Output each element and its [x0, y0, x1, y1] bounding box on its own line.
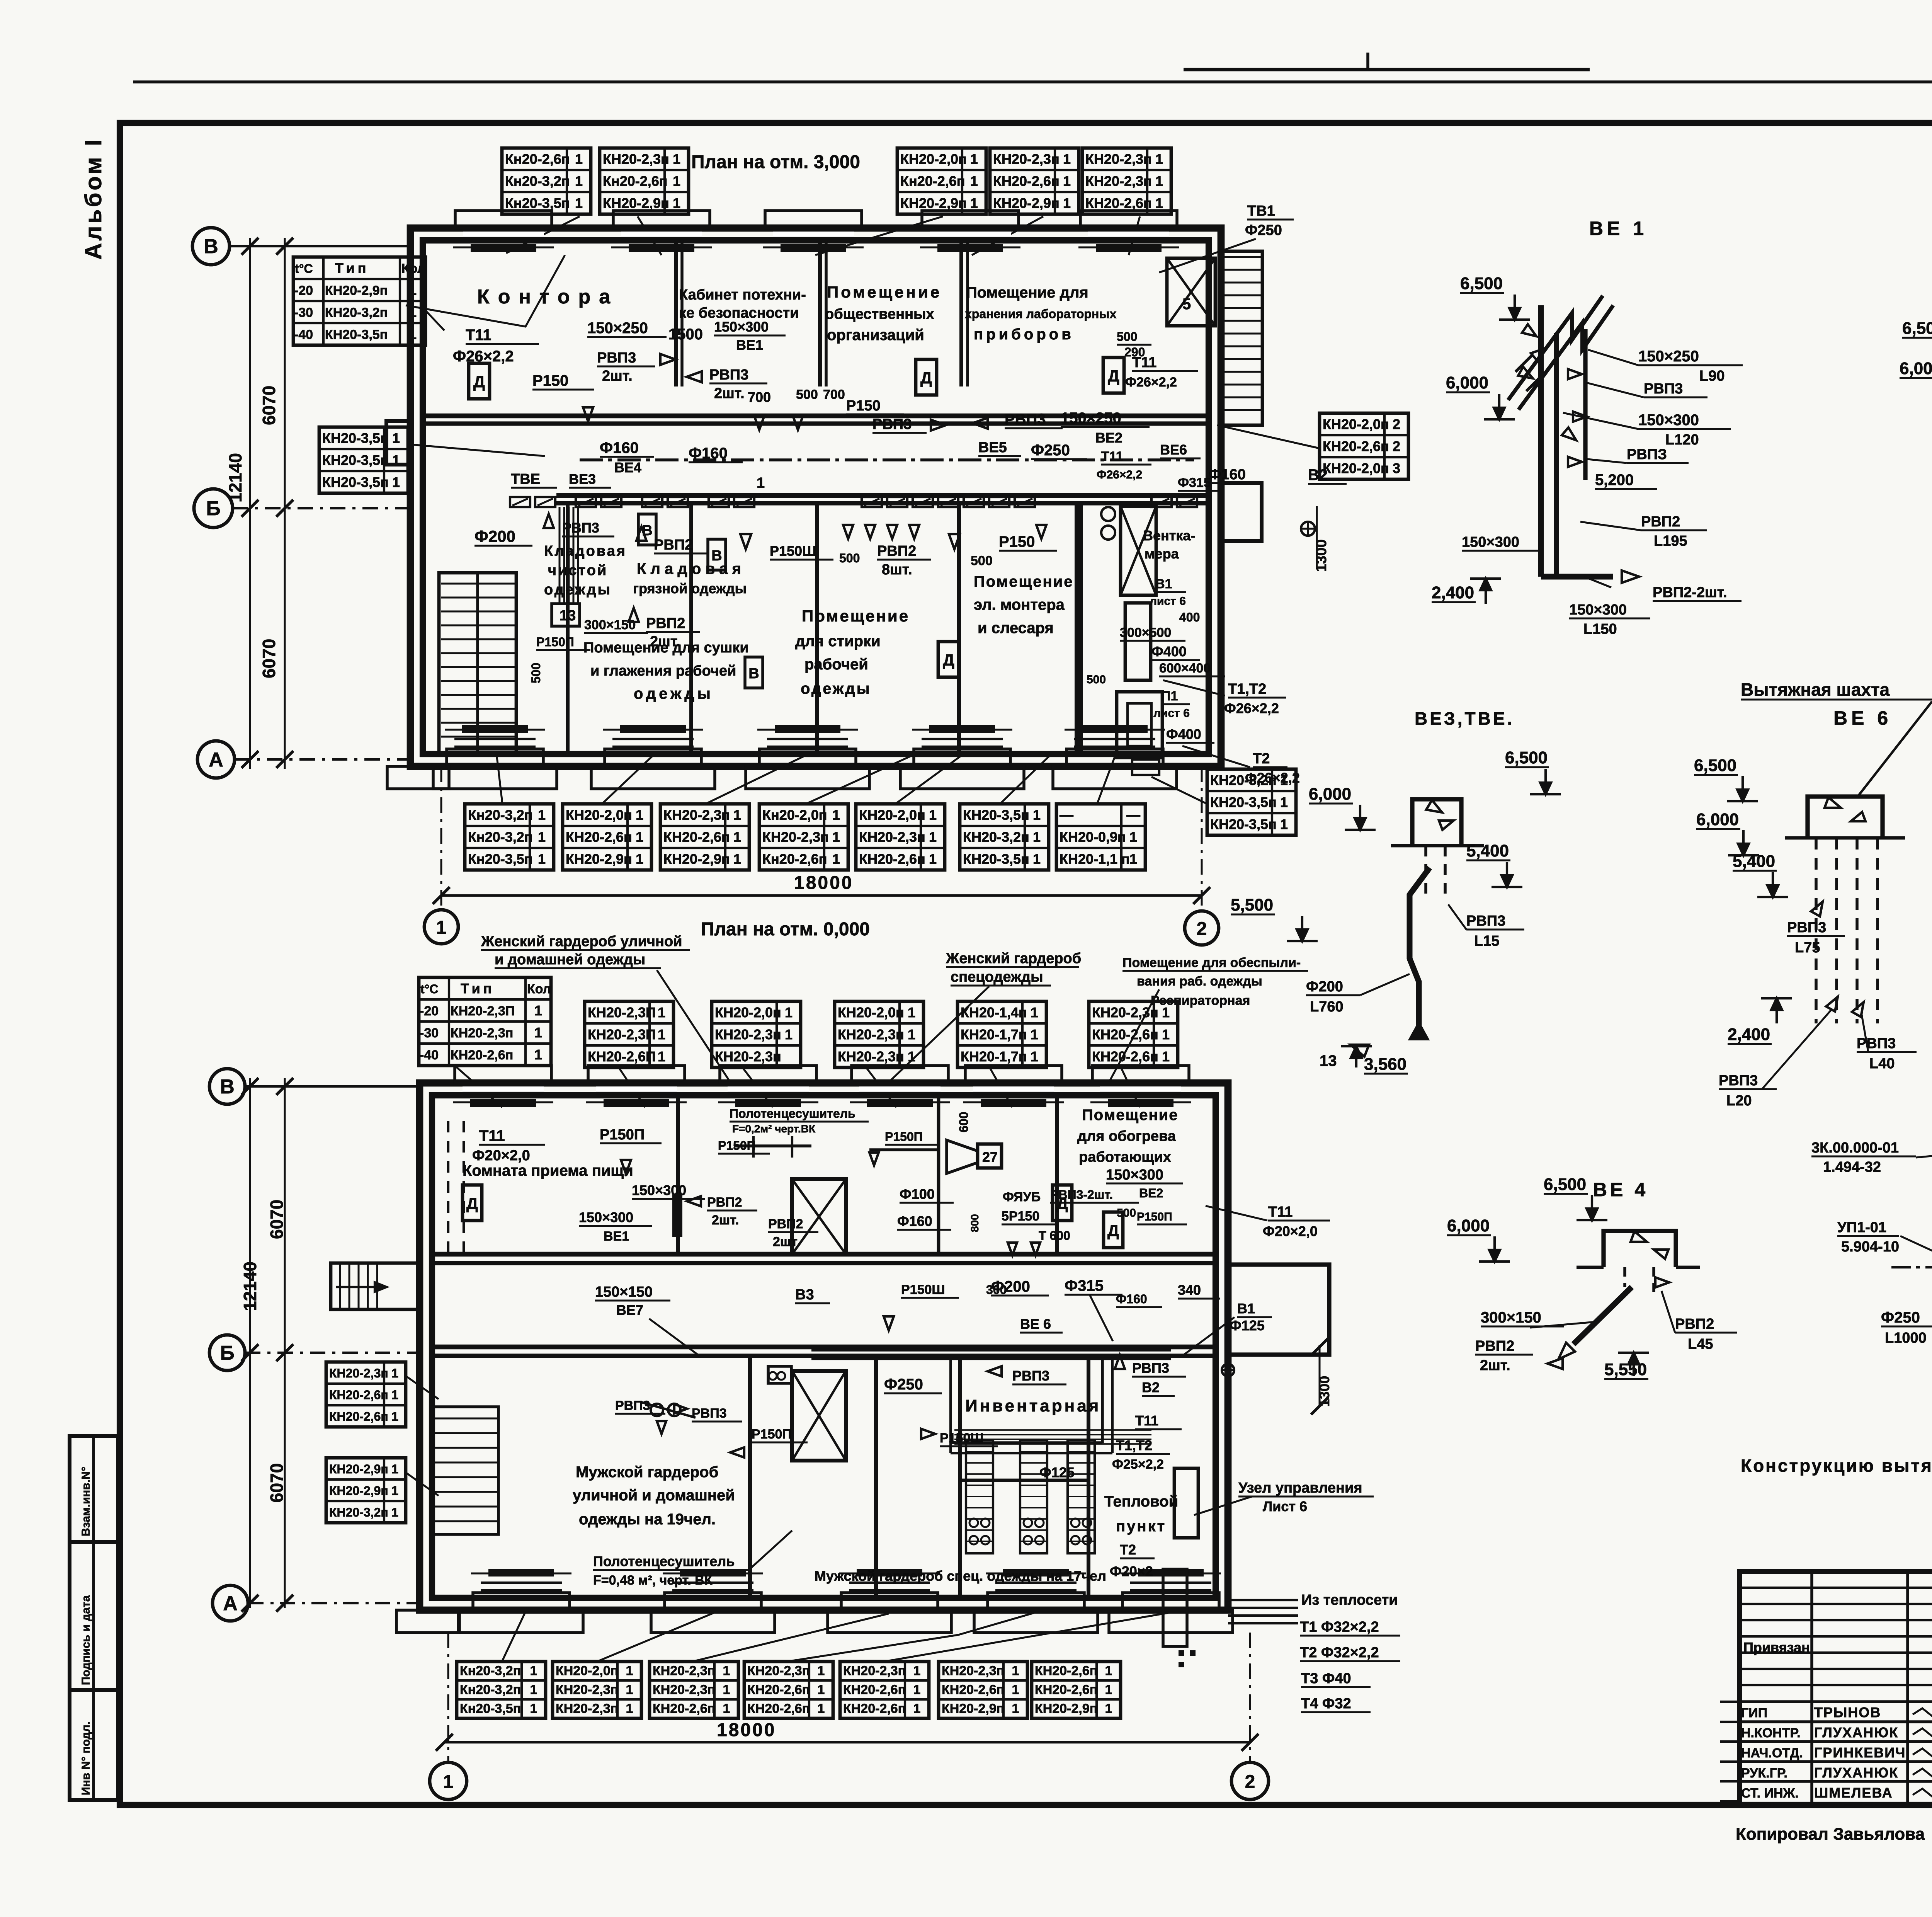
svg-text:КН20-2,3п: КН20-2,3п — [715, 1027, 781, 1042]
svg-text:150×300: 150×300 — [579, 1209, 633, 1225]
svg-text:Кн20-3,2п: Кн20-3,2п — [460, 1663, 521, 1678]
svg-text:Т 600: Т 600 — [1039, 1229, 1070, 1243]
svg-text:Т11: Т11 — [1268, 1204, 1293, 1220]
svg-text:500: 500 — [796, 387, 818, 402]
svg-text:F=0,48 м², черт. ВК: F=0,48 м², черт. ВК — [593, 1573, 713, 1588]
axis circle V upper — [192, 228, 230, 265]
svg-text:Кн20-3,2п: Кн20-3,2п — [468, 807, 533, 823]
svg-text:КН20-2,3п: КН20-2,3п — [843, 1663, 906, 1678]
svg-text:К л а д о в а я: К л а д о в а я — [637, 560, 741, 577]
svg-text:L90: L90 — [1699, 368, 1725, 384]
svg-text:500: 500 — [1117, 330, 1137, 344]
svg-text:Д: Д — [943, 651, 954, 669]
svg-text:1: 1 — [1031, 1049, 1038, 1064]
label D boxes lower — [463, 1185, 482, 1221]
svg-text:1: 1 — [1033, 829, 1041, 845]
dim verticals lower-left — [249, 1078, 251, 1608]
schematic BE1 break symbol — [1519, 305, 1613, 410]
svg-text:КН20-2,9п: КН20-2,9п — [603, 195, 669, 211]
radiator tables above lower plan — [585, 1001, 673, 1067]
svg-text:1: 1 — [530, 1682, 537, 1697]
svg-text:L45: L45 — [1688, 1336, 1713, 1352]
svg-text:1: 1 — [1031, 1027, 1038, 1042]
svg-text:рабочей: рабочей — [804, 656, 868, 673]
svg-text:1: 1 — [1063, 195, 1071, 211]
svg-text:800: 800 — [969, 1214, 981, 1232]
title block signatures scribbles — [1913, 1708, 1932, 1717]
svg-text:1: 1 — [658, 1027, 665, 1042]
axis leader lines upper — [230, 245, 410, 247]
svg-text:Р150: Р150 — [846, 398, 881, 414]
svg-text:ВЕ 4: ВЕ 4 — [1593, 1179, 1648, 1200]
svg-text:приборов: приборов — [974, 326, 1074, 343]
svg-text:Д: Д — [1107, 1221, 1119, 1239]
svg-text:1: 1 — [818, 1663, 825, 1678]
svg-text:Кн20-2,6п: Кн20-2,6п — [900, 173, 965, 189]
svg-text:1: 1 — [626, 1663, 633, 1678]
schematic BE1 dampers — [1522, 324, 1536, 336]
teplovoy punkt equipment — [1174, 1468, 1198, 1538]
svg-text:Инв N° подл.: Инв N° подл. — [80, 1721, 92, 1795]
ventkamera equipment — [1121, 506, 1156, 595]
svg-text:1: 1 — [1063, 173, 1071, 189]
svg-text:Комната приема пищи: Комната приема пищи — [463, 1162, 633, 1179]
svg-text:КН20-2,6п: КН20-2,6п — [993, 173, 1060, 189]
svg-text:КН20-3,5п: КН20-3,5п — [1210, 794, 1277, 810]
label B boxes upper — [638, 514, 656, 545]
axis leader lines lower — [245, 1085, 420, 1088]
svg-text:1: 1 — [1105, 1663, 1112, 1678]
svg-text:КН20-0,9п: КН20-0,9п — [1060, 829, 1126, 845]
svg-text:t°C: t°C — [420, 982, 439, 996]
svg-text:лист 6: лист 6 — [1153, 707, 1190, 720]
svg-text:ТРЫНОВ: ТРЫНОВ — [1814, 1704, 1881, 1720]
svg-text:1: 1 — [733, 829, 741, 845]
upper duct symbols row — [510, 497, 530, 507]
lower plan outer wall — [420, 1083, 1228, 1610]
svg-text:1: 1 — [1105, 1682, 1112, 1697]
axis circle 1 mid — [424, 910, 458, 944]
svg-text:Т1,Т2: Т1,Т2 — [1228, 681, 1266, 697]
svg-text:КН20-2,3п: КН20-2,3п — [663, 807, 730, 823]
svg-text:12140: 12140 — [240, 1262, 260, 1311]
svg-text:1: 1 — [673, 151, 680, 167]
svg-text:КН20-2,0п: КН20-2,0п — [1323, 460, 1389, 476]
svg-text:Кабинет потехни-: Кабинет потехни- — [679, 287, 806, 303]
svg-text:Ф26×2,2: Ф26×2,2 — [1224, 700, 1279, 716]
svg-text:КН20-2,6п: КН20-2,6п — [451, 1048, 513, 1062]
svg-text:для обогрева: для обогрева — [1077, 1128, 1176, 1144]
heat input pipes right — [1228, 1599, 1298, 1601]
svg-text:1: 1 — [970, 195, 978, 211]
radiator table upper top D — [990, 148, 1079, 214]
svg-text:КН20-2,3П: КН20-2,3П — [588, 1027, 656, 1042]
svg-text:1: 1 — [575, 195, 583, 211]
svg-text:1: 1 — [913, 1701, 921, 1716]
svg-text:В3: В3 — [795, 1287, 814, 1303]
svg-text:уличной и домашней: уличной и домашней — [573, 1487, 735, 1504]
svg-text:1: 1 — [733, 851, 741, 867]
radiator table lower left2 — [326, 1458, 406, 1523]
svg-text:РВП3: РВП3 — [1719, 1073, 1758, 1089]
svg-text:КН20-2,3п: КН20-2,3п — [838, 1027, 904, 1042]
leaders to bottom tables — [497, 754, 502, 803]
title block left table verticals — [1810, 1571, 1813, 1805]
svg-text:Р150П: Р150П — [1137, 1210, 1172, 1223]
svg-text:Ф160: Ф160 — [1209, 466, 1246, 483]
svg-text:Полотенцесушитель: Полотенцесушитель — [593, 1553, 735, 1569]
svg-text:Ф20×2,0: Ф20×2,0 — [472, 1147, 530, 1164]
lift shaft lower — [792, 1371, 846, 1461]
svg-text:и слесаря: и слесаря — [978, 620, 1054, 637]
svg-text:и глажения рабочей: и глажения рабочей — [590, 663, 736, 679]
svg-text:КН20-2,3п: КН20-2,3п — [747, 1663, 810, 1678]
svg-text:КН20-2,9п: КН20-2,9п — [1035, 1701, 1097, 1716]
svg-text:Т4 Ф32: Т4 Ф32 — [1301, 1696, 1351, 1712]
outer thin border top — [133, 80, 1932, 83]
upper plan top partitions — [674, 240, 678, 386]
svg-text:500: 500 — [839, 551, 860, 565]
upper plan left porch — [386, 421, 410, 465]
label D boxes upper — [469, 363, 490, 399]
svg-text:6,000: 6,000 — [1447, 1216, 1490, 1235]
svg-text:18000: 18000 — [794, 873, 853, 893]
svg-text:Ф20×2: Ф20×2 — [1110, 1563, 1153, 1579]
svg-text:1: 1 — [534, 1025, 542, 1040]
svg-text:РВП2: РВП2 — [768, 1217, 803, 1231]
inventarnaya duct loop — [1101, 1359, 1104, 1443]
svg-text:6,500: 6,500 — [1460, 274, 1503, 293]
svg-text:План на отм. 3,000: План на отм. 3,000 — [691, 152, 860, 172]
svg-text:КН20-2,3п: КН20-2,3п — [653, 1682, 715, 1697]
svg-text:Т11: Т11 — [479, 1127, 505, 1144]
svg-text:Конструкцию вытяжной шахты смо: Конструкцию вытяжной шахты смотри чертеж… — [1741, 1456, 1932, 1476]
title block outer — [1740, 1571, 1932, 1805]
svg-text:1: 1 — [832, 829, 840, 845]
lower plan bottom plinth blocks — [459, 1610, 583, 1633]
upper corridor duct line — [580, 458, 1194, 461]
svg-text:27: 27 — [982, 1149, 998, 1165]
svg-text:КН20-2,6п: КН20-2,6п — [1035, 1663, 1097, 1678]
svg-text:Кн20-3,2п: Кн20-3,2п — [460, 1682, 521, 1697]
svg-text:КН20-2,6п: КН20-2,6п — [653, 1701, 715, 1716]
svg-text:РВП2: РВП2 — [646, 615, 685, 632]
svg-text:КН20-2,6П: КН20-2,6П — [588, 1049, 656, 1064]
svg-text:КН20-2,3п: КН20-2,3п — [762, 829, 829, 845]
axis circle 2 bottom — [1231, 1762, 1269, 1800]
svg-text:6,500: 6,500 — [1544, 1175, 1586, 1194]
svg-text:2шт.: 2шт. — [714, 385, 745, 402]
svg-text:700: 700 — [748, 389, 771, 405]
svg-text:Кн20-3,5п: Кн20-3,5п — [505, 195, 570, 211]
svg-text:Привязан: Привязан — [1743, 1639, 1810, 1655]
svg-text:План на отм. 0,000: План на отм. 0,000 — [701, 919, 870, 940]
svg-text:5,200: 5,200 — [1595, 472, 1634, 489]
svg-text:ВЕ1: ВЕ1 — [736, 337, 763, 353]
svg-text:ВЕ4: ВЕ4 — [614, 460, 641, 475]
svg-text:Ф26×2,2: Ф26×2,2 — [1097, 468, 1142, 481]
svg-text:КН20-2,9п: КН20-2,9п — [566, 851, 632, 867]
schematic BE6 dashed risers — [1815, 838, 1818, 1023]
svg-text:ВЕ 6: ВЕ 6 — [1020, 1316, 1051, 1332]
upper plan right stair outside — [1221, 251, 1262, 425]
title block attach ticks left — [1720, 1701, 1740, 1703]
svg-text:НАЧ.ОТД.: НАЧ.ОТД. — [1741, 1746, 1803, 1760]
svg-text:1: 1 — [733, 807, 741, 823]
dashed risers left lower plan — [447, 1121, 449, 1252]
radiator table upper right outside — [1320, 413, 1408, 479]
svg-text:ВЕ1: ВЕ1 — [604, 1229, 629, 1244]
svg-text:КН20-2,6п: КН20-2,6п — [747, 1701, 810, 1716]
svg-text:290: 290 — [1124, 345, 1145, 359]
svg-text:1: 1 — [1155, 173, 1163, 189]
svg-text:1: 1 — [538, 807, 546, 823]
svg-text:Альбом I: Альбом I — [80, 137, 106, 260]
svg-text:1: 1 — [1063, 151, 1071, 167]
svg-text:РВП3: РВП3 — [1787, 919, 1826, 936]
svg-text:Ф160: Ф160 — [600, 439, 639, 456]
svg-text:работающих: работающих — [1079, 1149, 1171, 1165]
svg-text:РУК.ГР.: РУК.ГР. — [1741, 1766, 1787, 1781]
svg-text:L20: L20 — [1726, 1093, 1752, 1109]
svg-text:Ф125: Ф125 — [1230, 1318, 1265, 1333]
svg-text:лист 6: лист 6 — [1150, 595, 1186, 608]
svg-text:Р150П: Р150П — [536, 635, 574, 649]
upper plan outer wall — [410, 228, 1221, 766]
svg-text:1: 1 — [534, 1047, 542, 1062]
radiator table upper top C — [897, 148, 986, 214]
upper plan right porch — [1221, 483, 1262, 541]
lower plan right porch — [1228, 1265, 1329, 1355]
svg-text:6070: 6070 — [259, 639, 279, 678]
svg-text:2шт.: 2шт. — [1480, 1357, 1510, 1374]
svg-text:РВП2: РВП2 — [1641, 514, 1680, 530]
svg-text:КН20-3,5п: КН20-3,5п — [325, 327, 388, 342]
svg-text:СТ. ИНЖ.: СТ. ИНЖ. — [1741, 1786, 1799, 1801]
svg-text:18000: 18000 — [717, 1720, 776, 1740]
svg-text:5Р150: 5Р150 — [1002, 1209, 1039, 1224]
svg-text:В2: В2 — [1308, 466, 1328, 484]
svg-text:6,000: 6,000 — [1900, 359, 1932, 378]
svg-text:L150: L150 — [1583, 621, 1617, 637]
svg-text:1: 1 — [723, 1701, 730, 1716]
svg-text:1: 1 — [530, 1663, 537, 1678]
svg-text:1: 1 — [658, 1049, 665, 1064]
svg-text:1: 1 — [443, 1772, 454, 1792]
svg-text:1: 1 — [785, 1004, 793, 1020]
svg-text:РВП3: РВП3 — [615, 1398, 650, 1413]
svg-text:КН20-3,5п: КН20-3,5п — [322, 474, 389, 490]
lift shaft upper — [792, 1179, 846, 1254]
svg-text:мера: мера — [1145, 546, 1179, 562]
ventkamera hatched wall — [1075, 503, 1083, 754]
lower plan top windows — [463, 1086, 544, 1093]
svg-text:ВЕЗ,ТВЕ.: ВЕЗ,ТВЕ. — [1415, 708, 1514, 729]
svg-text:Кн20-3,5п: Кн20-3,5п — [468, 851, 533, 867]
funnel symbol 27 — [947, 1140, 978, 1173]
svg-text:1: 1 — [1012, 1701, 1019, 1716]
svg-text:1: 1 — [391, 1484, 398, 1498]
svg-text:Помещение для обеспыли-: Помещение для обеспыли- — [1122, 955, 1301, 970]
svg-text:Взам.инв.N°: Взам.инв.N° — [80, 1467, 92, 1536]
svg-text:Ф200: Ф200 — [474, 527, 515, 545]
svg-text:ВЕ3: ВЕ3 — [569, 471, 596, 487]
svg-text:Копировал Завьялова: Копировал Завьялова — [1736, 1825, 1925, 1844]
svg-text:1: 1 — [391, 1366, 398, 1380]
svg-text:-20: -20 — [420, 1004, 439, 1018]
svg-text:Р150П: Р150П — [600, 1127, 645, 1143]
svg-text:КН20-2,9п: КН20-2,9п — [900, 195, 967, 211]
svg-text:Ф250: Ф250 — [1245, 222, 1282, 238]
svg-text:ФЯУБ: ФЯУБ — [1003, 1190, 1041, 1204]
svg-text:Кн20-3,2п: Кн20-3,2п — [468, 829, 533, 845]
svg-text:КН20-2,0п: КН20-2,0п — [715, 1004, 781, 1020]
schematic BE6 shaft — [1808, 797, 1883, 838]
svg-text:Ф400: Ф400 — [1166, 726, 1201, 742]
svg-text:КН20-2,6п: КН20-2,6п — [1085, 195, 1152, 211]
svg-text:—: — — [1060, 807, 1073, 823]
svg-text:КН20-2,0п: КН20-2,0п — [1323, 416, 1389, 432]
svg-text:6070: 6070 — [267, 1200, 287, 1239]
radiator table upper midleft — [319, 427, 408, 493]
svg-text:КН20-2,6п: КН20-2,6п — [859, 851, 925, 867]
svg-text:500: 500 — [1087, 673, 1106, 686]
axis circle B upper — [194, 489, 233, 528]
svg-text:3,560: 3,560 — [1364, 1055, 1406, 1074]
svg-text:1: 1 — [575, 151, 583, 167]
svg-text:ТВ1: ТВ1 — [1247, 203, 1275, 219]
svg-text:Тип: Тип — [335, 260, 369, 276]
svg-text:Т3 Ф40: Т3 Ф40 — [1301, 1670, 1351, 1687]
svg-text:1: 1 — [575, 173, 583, 189]
svg-text:1: 1 — [391, 1410, 398, 1423]
svg-text:2: 2 — [1393, 438, 1400, 454]
svg-text:КН20-2,6п: КН20-2,6п — [843, 1701, 906, 1716]
svg-text:Помещение: Помещение — [802, 607, 910, 625]
svg-text:8шт.: 8шт. — [882, 562, 912, 578]
svg-text:РВП2: РВП2 — [1675, 1316, 1714, 1332]
svg-text:КН20-2,3П: КН20-2,3П — [451, 1004, 515, 1018]
temp header table lower left — [419, 977, 551, 1066]
radiator tables below lower plan — [457, 1662, 546, 1718]
svg-text:1: 1 — [391, 1462, 398, 1476]
svg-text:150×300: 150×300 — [714, 319, 769, 335]
svg-text:Т11: Т11 — [466, 327, 492, 344]
svg-text:Р150Ш: Р150Ш — [940, 1431, 984, 1445]
svg-text:КН20-2,6п: КН20-2,6п — [1035, 1682, 1097, 1697]
svg-text:В2: В2 — [1142, 1379, 1160, 1395]
svg-text:Мужской гардероб: Мужской гардероб — [576, 1464, 718, 1481]
svg-text:КН20-3,5п: КН20-3,5п — [1210, 816, 1277, 832]
svg-text:хранения лабораторных: хранения лабораторных — [965, 307, 1117, 321]
svg-text:КН20-2,9п: КН20-2,9п — [325, 283, 388, 298]
svg-text:1: 1 — [929, 829, 937, 845]
svg-text:КН20-1,4п: КН20-1,4п — [961, 1004, 1027, 1020]
svg-text:-20: -20 — [294, 283, 313, 298]
svg-text:ВЕ2: ВЕ2 — [1139, 1186, 1163, 1200]
svg-text:6070: 6070 — [259, 386, 279, 425]
lower plan bottom windows — [473, 1593, 570, 1610]
svg-text:КН20-2,3п: КН20-2,3п — [942, 1663, 1004, 1678]
lower plan corridor walls — [432, 1252, 1216, 1257]
svg-text:КН20-2,3п: КН20-2,3п — [329, 1366, 388, 1380]
svg-text:ВЕ 6: ВЕ 6 — [1833, 707, 1892, 729]
svg-text:1: 1 — [673, 195, 680, 211]
svg-text:L40: L40 — [1869, 1056, 1895, 1072]
svg-text:1: 1 — [757, 475, 765, 491]
svg-text:КН20-2,3п: КН20-2,3п — [556, 1701, 618, 1716]
svg-text:Тепловой: Тепловой — [1104, 1493, 1178, 1510]
svg-text:L760: L760 — [1310, 999, 1344, 1015]
svg-text:1: 1 — [1280, 794, 1288, 810]
svg-text:150×250: 150×250 — [1061, 410, 1121, 427]
svg-text:КН20-2,3п: КН20-2,3п — [556, 1682, 618, 1697]
svg-text:1: 1 — [1012, 1682, 1019, 1697]
svg-text:1: 1 — [1155, 195, 1163, 211]
svg-text:КН20-2,3п: КН20-2,3п — [1085, 173, 1152, 189]
dim verticals upper-left — [249, 238, 251, 769]
svg-text:1: 1 — [636, 807, 643, 823]
svg-text:t°C: t°C — [295, 262, 313, 276]
svg-text:КН20-3,5п: КН20-3,5п — [963, 807, 1029, 823]
svg-text:КН20-2,0п: КН20-2,0п — [838, 1004, 904, 1020]
svg-text:КН20-2,9п: КН20-2,9п — [329, 1462, 388, 1476]
upper plan bottom partitions — [566, 503, 570, 754]
svg-text:1: 1 — [1155, 151, 1163, 167]
svg-text:ГЛУХАНЮК: ГЛУХАНЮК — [1814, 1725, 1898, 1740]
svg-text:Женский гардероб уличной: Женский гардероб уличной — [481, 933, 682, 950]
svg-text:150×250: 150×250 — [1638, 348, 1699, 365]
svg-text:Т1 Ф32×2,2: Т1 Ф32×2,2 — [1300, 1619, 1379, 1635]
svg-text:Помещение для сушки: Помещение для сушки — [583, 640, 749, 656]
svg-text:Ф200: Ф200 — [991, 1278, 1030, 1295]
title block signature rows — [1740, 1700, 1932, 1703]
heating radiator ladders — [966, 1440, 993, 1553]
svg-text:Кн20-2,6п: Кн20-2,6п — [762, 851, 827, 867]
svg-text:1: 1 — [538, 851, 546, 867]
svg-text:F=0,2м² черт.ВК: F=0,2м² черт.ВК — [732, 1123, 816, 1135]
svg-text:Т11: Т11 — [1135, 1413, 1158, 1428]
upper plan top windows — [463, 231, 544, 238]
svg-text:КН20-2,3П: КН20-2,3П — [588, 1004, 656, 1020]
svg-text:Ф26×2,2: Ф26×2,2 — [1125, 375, 1177, 390]
svg-text:1: 1 — [636, 851, 643, 867]
top fold mark line — [1184, 68, 1590, 72]
svg-text:L15: L15 — [1474, 933, 1499, 949]
svg-text:Вентка-: Вентка- — [1143, 528, 1195, 543]
svg-text:РВП2: РВП2 — [1475, 1338, 1514, 1354]
svg-text:Мужской гардероб спец. одежды: Мужской гардероб спец. одежды на 17чел — [815, 1568, 1106, 1584]
svg-text:Инвентарная: Инвентарная — [965, 1396, 1101, 1415]
svg-text:УП1-01: УП1-01 — [1837, 1219, 1886, 1236]
leaders from lower top tables — [456, 1067, 502, 1107]
svg-text:700: 700 — [823, 387, 845, 402]
svg-text:КН20-2,3п: КН20-2,3п — [859, 829, 925, 845]
svg-text:1: 1 — [1280, 816, 1288, 832]
svg-text:КН20-2,6п: КН20-2,6п — [1092, 1027, 1158, 1042]
svg-text:500: 500 — [971, 553, 993, 568]
svg-text:150×150: 150×150 — [595, 1284, 653, 1300]
svg-text:6,000: 6,000 — [1446, 373, 1488, 392]
svg-text:Д: Д — [1056, 1194, 1068, 1212]
svg-text:РВП3: РВП3 — [872, 416, 912, 432]
svg-text:2шт.: 2шт. — [712, 1213, 739, 1227]
svg-text:РВП3: РВП3 — [692, 1406, 727, 1421]
svg-text:2,400: 2,400 — [1432, 583, 1474, 602]
svg-text:5,500: 5,500 — [1231, 896, 1273, 914]
svg-text:КН20-2,0п: КН20-2,0п — [556, 1663, 618, 1678]
dim line 18000 upper — [441, 894, 1202, 897]
